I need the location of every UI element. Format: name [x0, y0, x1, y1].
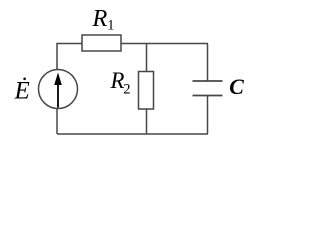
wire: middle branch top (node to R2): [146, 44, 148, 72]
capacitor C top plate: [193, 80, 223, 82]
source U1 circle: [39, 70, 78, 109]
resistor R2: [139, 72, 154, 110]
wire: right branch bottom (capacitor to bottom wire): [207, 96, 209, 135]
wire: right branch top (to capacitor): [207, 44, 209, 82]
svg-text:Ė: Ė: [14, 78, 30, 105]
svg-text:C: C: [229, 75, 244, 99]
svg-text:1: 1: [107, 18, 114, 34]
wire: bottom segment: [57, 133, 208, 135]
resistor R1: [82, 35, 121, 51]
wire: top-left segment (source to R1): [57, 44, 82, 71]
source arrow (current direction, pointing up): [54, 73, 62, 108]
wire: top segment R1 to right branch: [121, 43, 208, 45]
capacitor C bottom plate: [193, 95, 223, 97]
svg-text:R: R: [110, 68, 125, 93]
wire: middle branch bottom (R2 to bottom wire): [146, 109, 148, 134]
svg-text:R: R: [91, 5, 107, 32]
wire: left vertical bottom (source to bottom wire): [56, 109, 58, 135]
svg-text:2: 2: [123, 81, 130, 97]
